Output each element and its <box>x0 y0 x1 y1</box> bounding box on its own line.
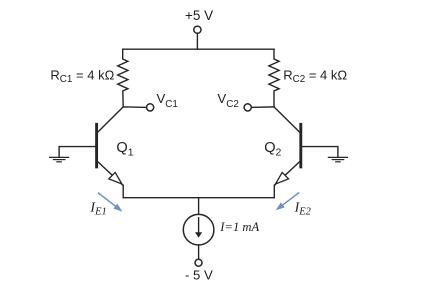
svg-text:VC2: VC2 <box>217 91 238 110</box>
wire: Q1 base to ground <box>59 147 95 158</box>
svg-text:Q1: Q1 <box>116 140 133 158</box>
+5 V terminal <box>194 26 201 33</box>
svg-text:RC1 = 4 kΩ: RC1 = 4 kΩ <box>50 67 114 85</box>
svg-text:+5 V: +5 V <box>185 8 213 23</box>
node VC1 terminal <box>147 104 154 111</box>
svg-text:IE1: IE1 <box>89 201 106 218</box>
wire: VC1 tap stub <box>123 106 146 109</box>
wire: Q2 base to ground <box>302 147 338 158</box>
wire: VC2 tap stub <box>251 106 274 109</box>
wire: current source to -5V terminal <box>198 245 200 259</box>
wire: Q1 emitter corner <box>122 185 124 198</box>
node VC2 terminal <box>244 104 251 111</box>
ground (left) <box>50 157 69 161</box>
wire: +5V terminal to top rail <box>196 33 198 49</box>
wire: top rail <box>123 48 274 50</box>
svg-text:VC1: VC1 <box>157 91 179 110</box>
current source I <box>183 214 214 245</box>
transistor Q2 <box>274 107 301 185</box>
wire: emitter rail <box>123 197 274 199</box>
transistor Q1 <box>97 107 124 185</box>
wire: rail to current source <box>198 198 200 215</box>
resistor RC2 <box>269 49 279 107</box>
svg-text:I=1 mA: I=1 mA <box>219 220 259 234</box>
ground (right) <box>328 157 347 161</box>
resistor RC1 <box>118 49 128 107</box>
svg-text:IE2: IE2 <box>294 201 312 218</box>
svg-text:- 5 V: - 5 V <box>185 268 213 283</box>
wire: Q2 emitter corner <box>273 185 275 198</box>
svg-text:Q2: Q2 <box>264 140 281 158</box>
current arrow IE2 <box>276 193 299 210</box>
current arrow IE1 <box>99 193 123 212</box>
power -5 V terminal <box>195 259 202 266</box>
svg-text:RC2 = 4 kΩ: RC2 = 4 kΩ <box>283 67 347 85</box>
